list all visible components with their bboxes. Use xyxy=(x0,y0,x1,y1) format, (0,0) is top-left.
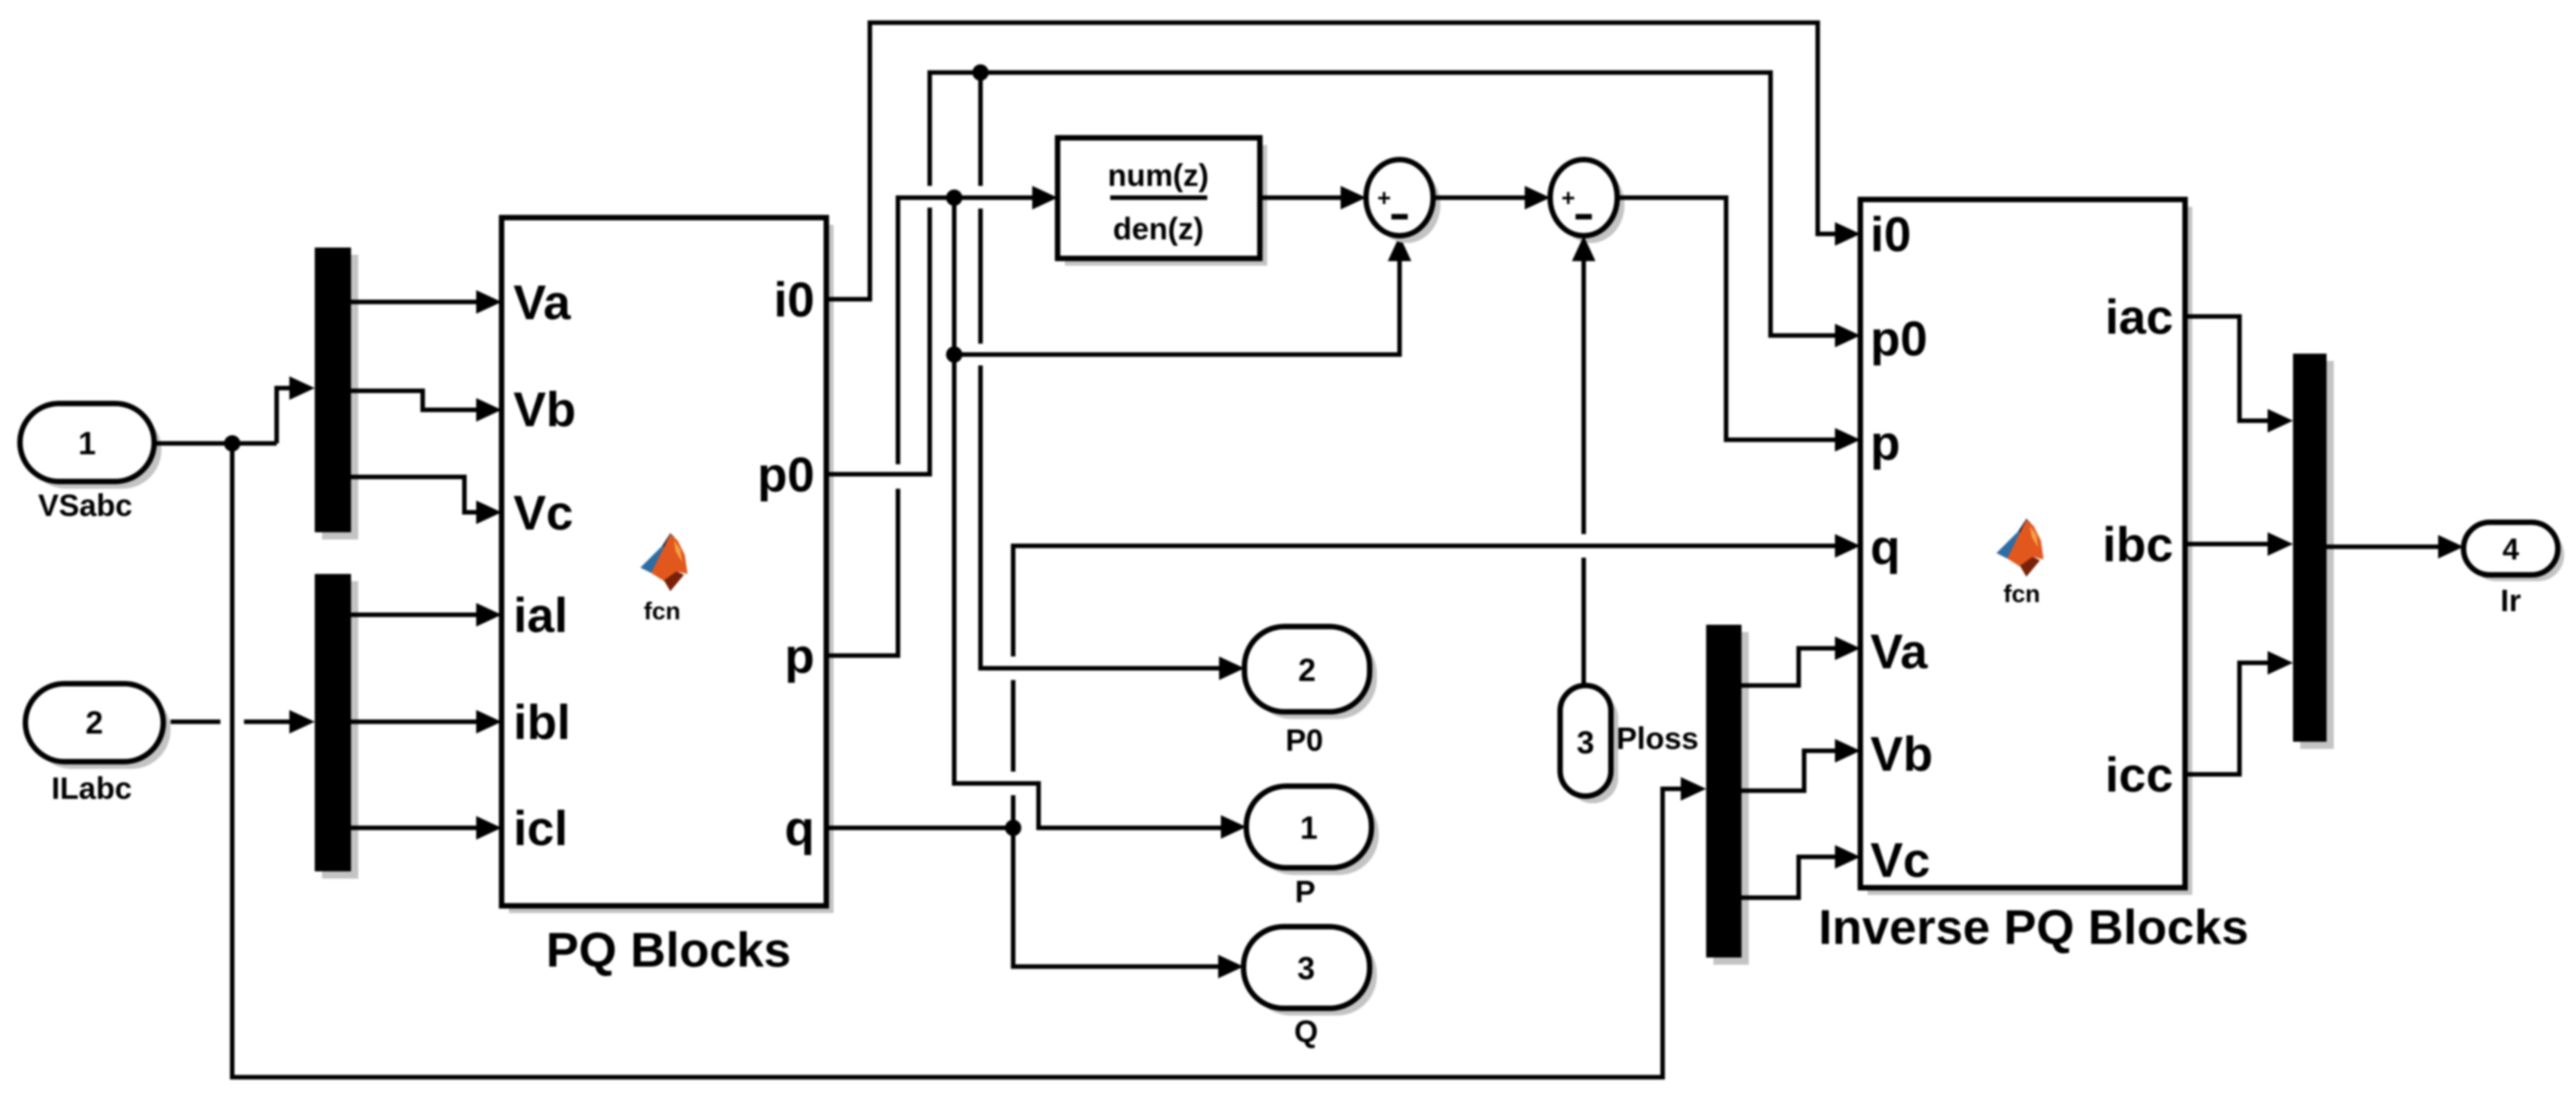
wire Mux4 to outport Ir xyxy=(2327,545,2438,549)
svg-text:i0: i0 xyxy=(774,273,815,327)
arrowhead p into transfer fcn xyxy=(1032,186,1058,209)
outport Q oval 3 xyxy=(1244,927,1377,1016)
sum block Sum1 xyxy=(1366,160,1440,243)
mux Mux3 (middle black bar) xyxy=(1706,625,1749,965)
svg-text:Va: Va xyxy=(1870,625,1928,679)
icon MATLAB fcn logo (PQ Blocks) xyxy=(640,533,688,591)
svg-text:4: 4 xyxy=(2503,532,2520,566)
arrowhead ibc into Mux4 xyxy=(2268,532,2293,556)
icon MATLAB fcn logo (Inverse PQ Blocks) xyxy=(1996,519,2044,577)
inport Ploss oval 3 xyxy=(1560,685,1618,803)
arrowhead icl xyxy=(476,816,502,840)
svg-text:2: 2 xyxy=(1298,653,1315,688)
svg-text:VSabc: VSabc xyxy=(38,489,132,523)
svg-text:1: 1 xyxy=(78,426,95,462)
wire ILabc to Demux2 xyxy=(171,720,289,724)
svg-text:p0: p0 xyxy=(757,448,815,502)
node junction p branch xyxy=(946,190,962,206)
wire Demux1 to Vb xyxy=(351,391,476,410)
arrowhead into sum2 bottom xyxy=(1572,236,1595,261)
wire Demux1 to Va xyxy=(351,300,476,305)
wire Mux3 to Inverse Vc xyxy=(1742,857,1835,898)
wire q riser to Inverse q xyxy=(1013,546,1835,828)
svg-text:1: 1 xyxy=(1300,811,1317,846)
svg-text:Vb: Vb xyxy=(1870,727,1933,782)
svg-text:P: P xyxy=(1295,875,1316,909)
wire Demux2 to ibl xyxy=(351,720,476,724)
svg-text:den(z): den(z) xyxy=(1113,212,1204,247)
arrowhead into outport P xyxy=(1221,815,1246,839)
arrowhead into sum2 xyxy=(1525,186,1550,209)
outport P0 oval 2 xyxy=(1244,627,1377,719)
node junction p to sum1 xyxy=(946,346,962,363)
svg-text:fcn: fcn xyxy=(644,598,681,625)
svg-text:fcn: fcn xyxy=(2004,580,2041,608)
arrowhead feedback into Mux3 xyxy=(1681,777,1706,801)
arrowhead Vb into Inverse xyxy=(1835,739,1860,763)
arrowhead into outport P0 xyxy=(1219,656,1244,680)
svg-text:ial: ial xyxy=(513,588,568,643)
wire icc to Mux4 xyxy=(2185,663,2268,774)
wire Demux1 to Vc xyxy=(351,477,476,512)
svg-text:Inverse PQ Blocks: Inverse PQ Blocks xyxy=(1819,900,2249,955)
block PQ Blocks xyxy=(502,218,834,913)
wire Demux2 to ial xyxy=(351,613,476,617)
svg-text:+: + xyxy=(1377,184,1390,211)
arrowhead into sum1 xyxy=(1341,186,1366,209)
svg-text:icc: icc xyxy=(2105,748,2173,802)
wire transfer fcn out to sum1 xyxy=(1260,196,1341,200)
arrowhead p into Inverse xyxy=(1835,428,1860,452)
arrowhead Va xyxy=(476,290,502,314)
wire i0 to Inverse i0 xyxy=(826,23,1835,299)
wire p branch to sum1 minus input xyxy=(954,261,1400,355)
arrowhead ILabc into Demux2 xyxy=(289,710,315,734)
svg-text:p: p xyxy=(1870,416,1900,471)
svg-text:3: 3 xyxy=(1576,725,1594,761)
svg-text:p0: p0 xyxy=(1870,312,1927,366)
outport Ir oval 4 xyxy=(2464,522,2564,581)
demux Demux2 (lower black bar) xyxy=(315,574,358,879)
svg-text:Vc: Vc xyxy=(513,486,573,540)
wire sum2 out to Inverse p xyxy=(1617,198,1835,440)
inport ILabc oval 2 xyxy=(25,684,171,769)
wire ibc to Mux4 xyxy=(2185,542,2268,547)
svg-text:num(z): num(z) xyxy=(1107,159,1208,193)
wire Mux3 to Inverse Va xyxy=(1742,648,1835,685)
inport VSabc oval 1 xyxy=(20,403,161,489)
arrowhead into sum1 bottom xyxy=(1388,236,1411,261)
wire p branch down and to outport P xyxy=(954,198,1221,828)
svg-text:P0: P0 xyxy=(1285,724,1323,758)
svg-text:2: 2 xyxy=(85,705,102,741)
arrowhead icc into Mux4 xyxy=(2268,651,2293,675)
svg-text:PQ Blocks: PQ Blocks xyxy=(546,923,791,977)
svg-text:q: q xyxy=(1870,520,1900,575)
demux Demux1 (upper black bar) xyxy=(315,248,358,540)
arrowhead ial xyxy=(476,603,502,627)
svg-text:icl: icl xyxy=(513,802,568,856)
arrowhead Vc xyxy=(476,501,502,524)
node junction q xyxy=(1005,820,1021,836)
block Inverse PQ Blocks xyxy=(1860,199,2192,895)
arrowhead into outport Q xyxy=(1218,955,1244,978)
svg-text:p: p xyxy=(785,629,815,684)
svg-text:+: + xyxy=(1561,184,1575,211)
svg-text:q: q xyxy=(785,802,815,856)
arrowhead iac into Mux4 xyxy=(2268,409,2293,433)
wire iac to Mux4 xyxy=(2185,316,2268,421)
svg-text:Ir: Ir xyxy=(2501,584,2522,618)
svg-text:iac: iac xyxy=(2105,290,2173,345)
wire q down to outport Q xyxy=(1013,828,1218,967)
wire Mux3 to Inverse Vb xyxy=(1742,751,1835,791)
arrowhead Va into Inverse xyxy=(1835,637,1860,660)
wire junction up to Demux1 xyxy=(277,388,289,443)
mux Mux4 (right black bar) xyxy=(2293,354,2334,749)
wire p to transfer fcn xyxy=(826,198,1032,656)
svg-text:i0: i0 xyxy=(1870,208,1911,262)
svg-text:Vb: Vb xyxy=(513,383,576,437)
svg-text:Vc: Vc xyxy=(1870,833,1930,888)
arrowhead ibl xyxy=(476,710,502,734)
wire q from PQ block xyxy=(826,826,1013,831)
svg-text:3: 3 xyxy=(1297,951,1314,987)
svg-text:ibl: ibl xyxy=(513,695,571,750)
wire Demux2 to icl xyxy=(351,826,476,831)
wire p0 riser xyxy=(826,73,1835,474)
arrowhead q into Inverse xyxy=(1835,534,1860,558)
svg-text:Ploss: Ploss xyxy=(1616,722,1699,756)
arrowhead into outport Ir xyxy=(2438,535,2464,559)
svg-text:ILabc: ILabc xyxy=(52,772,132,806)
sum block Sum2 xyxy=(1550,160,1625,243)
wire sum1 to sum2 xyxy=(1433,196,1525,200)
block transfer fcn num(z)/den(z) xyxy=(1058,138,1267,266)
wire Ploss up to sum2 minus input xyxy=(1582,261,1586,685)
svg-text:Va: Va xyxy=(513,276,571,330)
arrowhead Vb xyxy=(476,398,502,422)
wire VSabc to junction xyxy=(154,442,277,446)
wire p0 branch down to outport P0 xyxy=(981,73,1219,668)
outport P oval 1 xyxy=(1246,786,1379,875)
arrowhead into Demux1 xyxy=(289,376,315,400)
arrowhead p0 into Inverse xyxy=(1835,324,1860,347)
svg-text:ibc: ibc xyxy=(2103,518,2173,572)
node junction p0 branch xyxy=(972,64,989,81)
node junction VSabc xyxy=(224,435,240,452)
svg-text:Q: Q xyxy=(1294,1015,1318,1049)
arrowhead i0 into Inverse xyxy=(1835,222,1860,246)
arrowhead Vc into Inverse xyxy=(1835,845,1860,869)
wire feedback VSabc bottom loop to Mux3 xyxy=(232,443,1681,1077)
